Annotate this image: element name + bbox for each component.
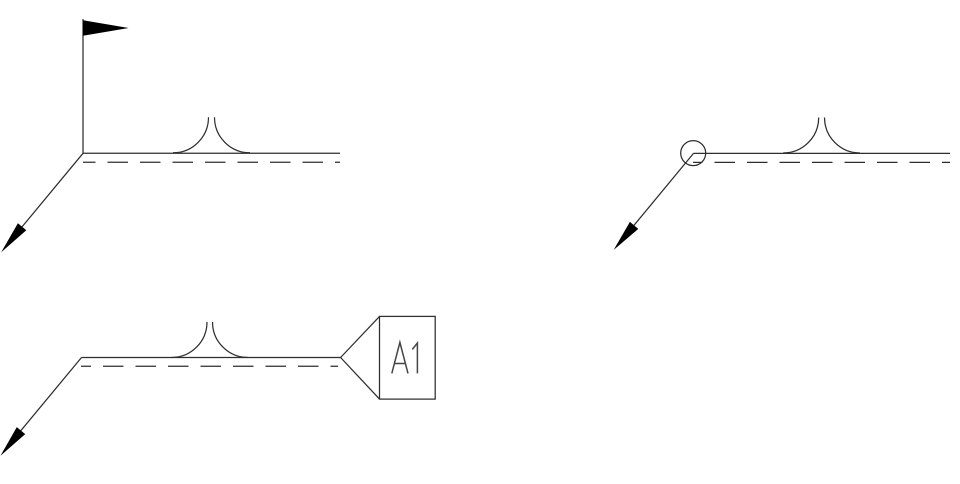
tail reference box W3 [380, 316, 436, 399]
wire: arrow leader line W1 [5, 153, 84, 248]
wire: reference line W2 [694, 152, 951, 154]
flare-V weld symbol W3: left arc [172, 322, 208, 358]
wire: reference line W1 [83, 152, 340, 154]
weld symbol W2 (weld-all-around circle variant), top-right [614, 118, 950, 250]
wire: identification line (dashed) W2 [693, 161, 950, 163]
label A1: letter A [392, 342, 408, 373]
wire: reference line W3 [82, 357, 341, 359]
arrowhead W1 [1, 223, 26, 252]
flare-V weld symbol W3: right arc [213, 322, 249, 358]
wire: identification line (dashed) W3 [81, 365, 338, 367]
flare-V weld symbol W1: right arc [215, 117, 251, 153]
weld symbol W1 (field weld flag variant), top-left [1, 19, 340, 252]
flag pole W1 [82, 19, 84, 153]
arrowhead W2 [614, 222, 639, 250]
weld symbol W3 (tail with reference box A1), bottom-left [1, 316, 436, 455]
field weld flag W1 [83, 20, 129, 36]
arrowhead W3 [1, 427, 26, 456]
weld-all-around circle W2 [681, 141, 706, 166]
flare-V weld symbol W1: left arc [173, 117, 209, 153]
wire: identification line (dashed) W1 [83, 161, 340, 163]
wire: arrow leader line W2 [616, 153, 693, 246]
flare-V weld symbol W2: left arc [783, 118, 819, 154]
flare-V weld symbol W2: right arc [825, 118, 861, 154]
wire: arrow leader line W3 [3, 358, 81, 452]
label A1: digit 1 [412, 343, 417, 373]
tail fork upper line W3 [341, 316, 380, 357]
tail fork lower line W3 [341, 358, 380, 400]
